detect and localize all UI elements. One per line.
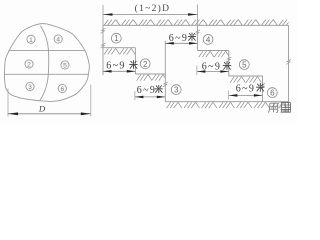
node 1 circled [27,35,35,43]
tread 5 hatched [199,51,230,57]
svg-text:6: 6 [270,89,275,98]
face 5 riser [228,51,230,77]
circled 4 [203,35,213,45]
dimension D extension lines [7,89,9,117]
middle curved divider [40,26,49,101]
svg-text:6: 6 [60,86,64,93]
circled 3 [171,85,181,95]
circled 5 [239,60,249,70]
node 6 circled [58,84,66,92]
svg-text:1: 1 [114,34,119,43]
break tick on riser 5 [226,57,231,62]
svg-text:2: 2 [143,60,148,69]
break tick on right edge [286,60,291,65]
top dimension (1~2)D extension lines [102,5,104,25]
face 1 riser [102,25,104,75]
svg-text:3: 3 [174,86,179,95]
svg-text:6~9: 6~9 [169,33,189,44]
dimension D line with arrows [8,113,91,115]
face 6 riser [262,76,264,102]
node 2 circled [25,60,33,68]
svg-text:D: D [38,104,46,114]
tread 6 hatched [230,77,261,83]
ground surface hatched band [104,20,294,25]
watermark [268,103,278,112]
dim 6~9 under tread 6 extension [227,91,229,100]
svg-text:6~9: 6~9 [236,83,256,94]
node 4 circled [54,35,62,43]
svg-text:5: 5 [63,63,67,70]
tunnel outline [4,24,89,102]
svg-text:6~9: 6~9 [137,85,157,96]
face 2 riser [134,48,136,74]
tread 3 hatched [137,75,167,81]
break tick on riser 6 [260,84,265,89]
top dimension line (1~2)D [103,14,198,16]
right edge line [288,25,290,104]
svg-text:4: 4 [56,37,60,44]
svg-text:2: 2 [27,62,31,69]
svg-text:4: 4 [206,35,211,44]
tread 2 hatched [104,48,135,54]
circled 6 [267,88,277,98]
face 4 riser [197,25,199,50]
upper horizontal divider [8,49,84,51]
svg-text:1: 1 [29,37,33,44]
circled 2 [140,59,150,69]
tunnel floor line + hatch below [167,102,287,108]
circled 1 [111,33,121,43]
node 3 circled [26,82,34,90]
node 5 circled [61,61,69,69]
face 3 riser + ext up [164,41,166,102]
break tick on riser 1 (upper) [101,28,106,33]
break tick on riser 1 (lower) [101,43,106,48]
svg-text:6~9: 6~9 [106,61,126,72]
svg-text:3: 3 [28,84,32,91]
break tick on riser 4 [195,30,200,35]
lower horizontal divider [5,73,89,75]
svg-text:5: 5 [242,61,247,70]
svg-text:(1~2)D: (1~2)D [135,3,171,14]
break tick on riser 3 [163,82,168,87]
